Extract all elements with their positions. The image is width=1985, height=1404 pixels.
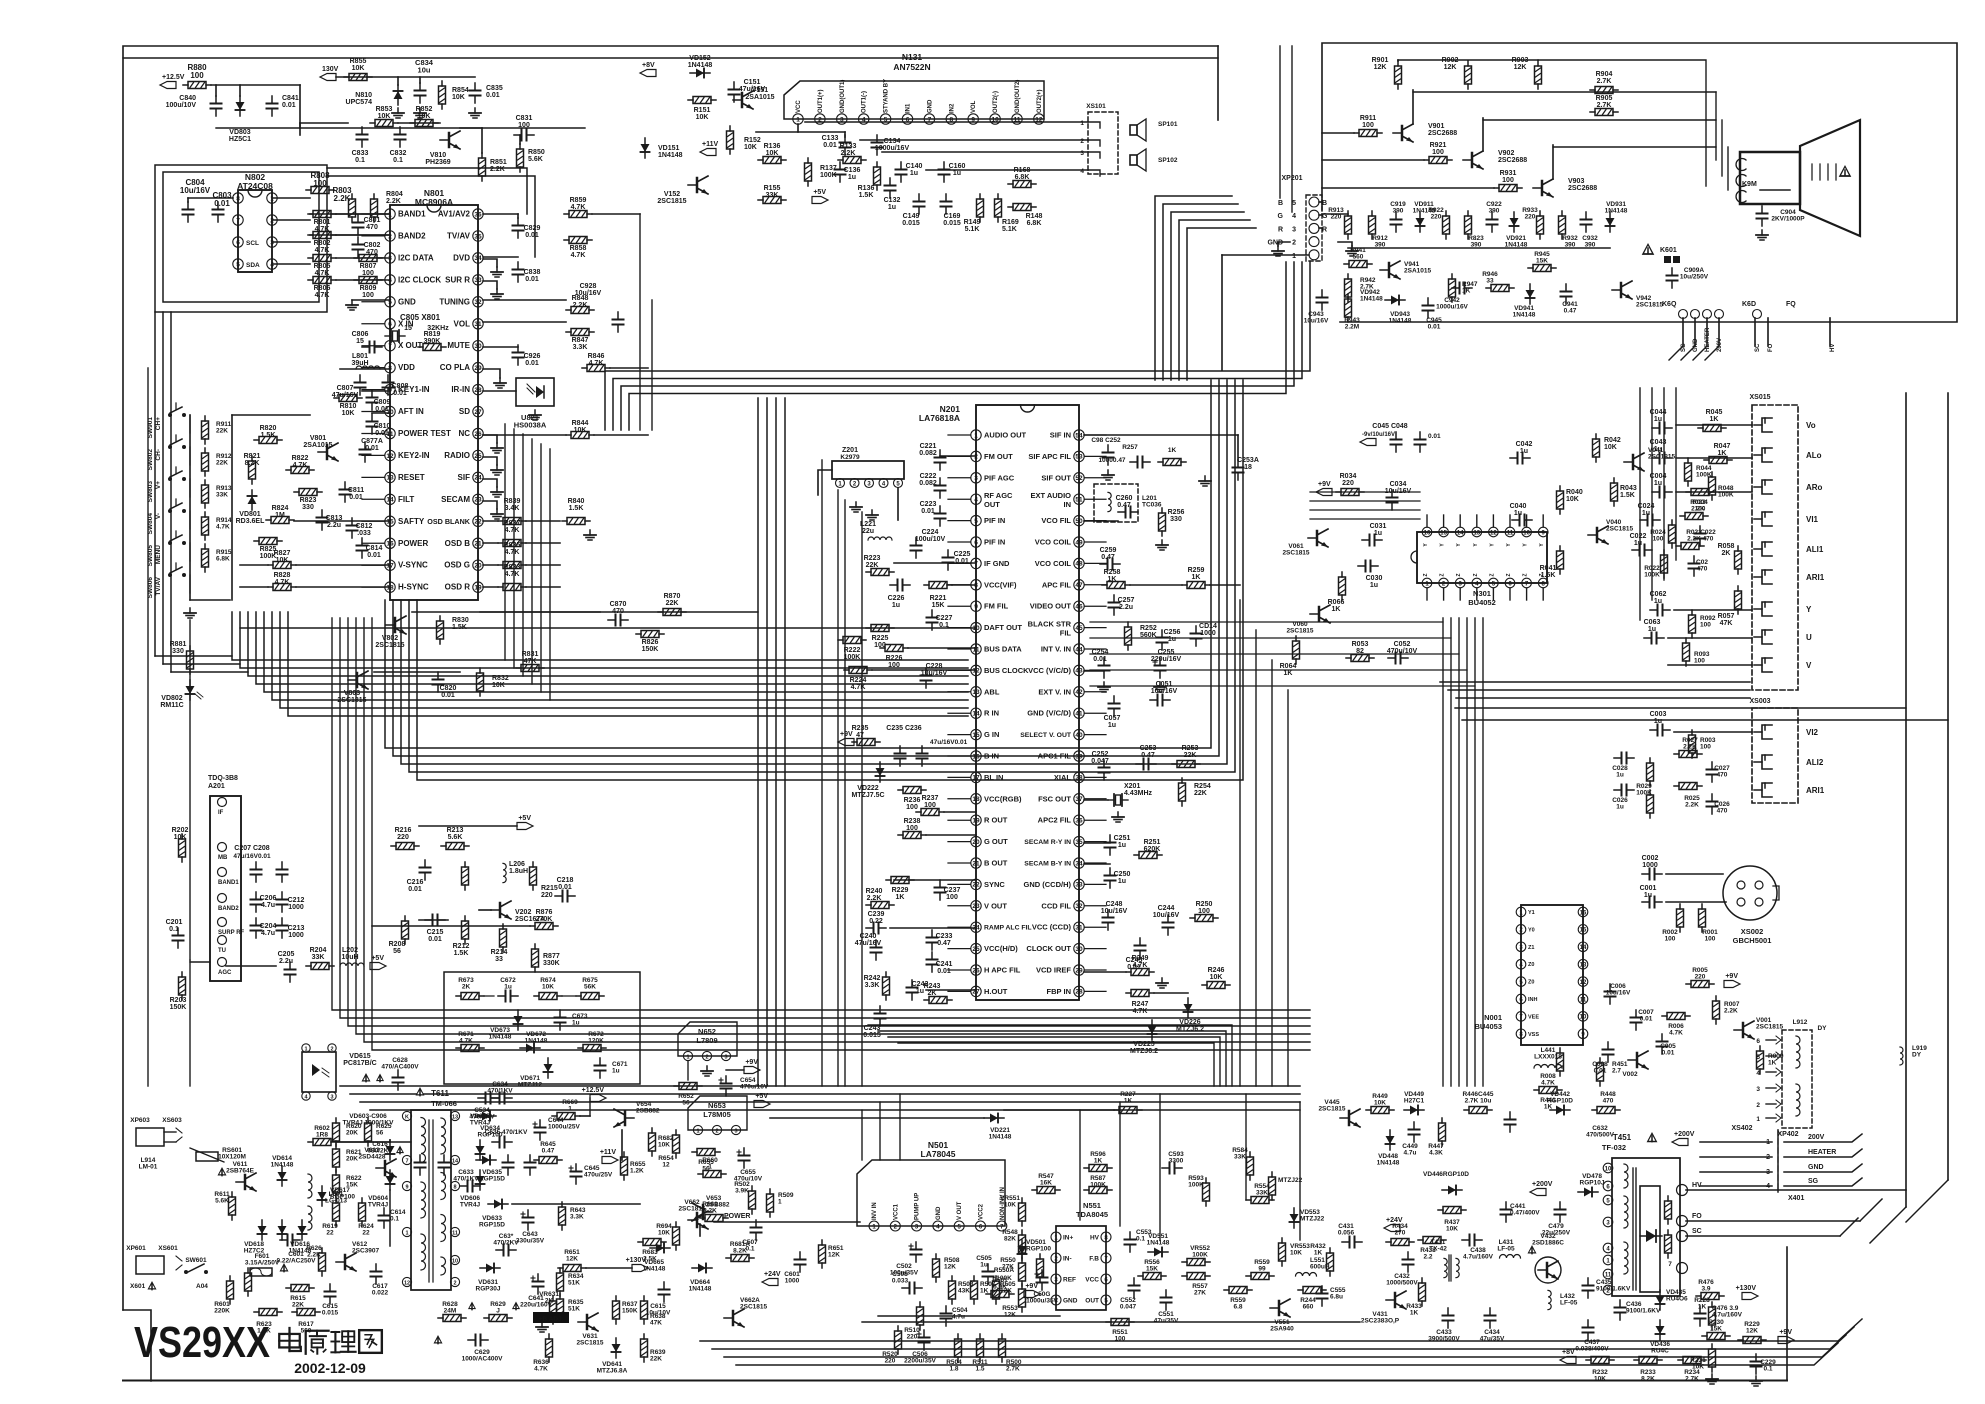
svg-text:3.9K: 3.9K bbox=[735, 1188, 749, 1195]
svg-text:0.015: 0.015 bbox=[943, 220, 961, 227]
svg-text:13: 13 bbox=[1580, 963, 1587, 969]
svg-text:V OUT: V OUT bbox=[957, 1201, 963, 1220]
svg-text:10K: 10K bbox=[342, 410, 355, 417]
pin 20 G OUT bbox=[971, 836, 981, 846]
svg-text:0.01: 0.01 bbox=[525, 360, 539, 367]
svg-text:Z0: Z0 bbox=[1528, 980, 1534, 986]
resistor R837 bbox=[498, 542, 503, 544]
svg-text:2SC1815: 2SC1815 bbox=[576, 1340, 603, 1347]
diode VD635 bbox=[476, 1159, 496, 1161]
svg-text:FBP IN: FBP IN bbox=[1047, 987, 1071, 996]
wire bbox=[1674, 731, 1752, 733]
capacitor C218 bbox=[555, 895, 563, 897]
pin 12 KEY2-IN bbox=[385, 450, 395, 460]
svg-text:R: R bbox=[1278, 226, 1283, 233]
wire switch bus bbox=[231, 415, 233, 600]
resistor R922 bbox=[1445, 211, 1447, 216]
jack VI2 bbox=[1762, 725, 1772, 739]
resistor R057 bbox=[1737, 586, 1739, 591]
inductor L551 bbox=[1296, 1273, 1317, 1277]
resistor R234 bbox=[1678, 1359, 1683, 1361]
svg-text:VI1: VI1 bbox=[1806, 515, 1819, 524]
svg-text:R136: R136 bbox=[858, 185, 875, 192]
resistor R204 bbox=[306, 965, 311, 967]
resistor R225 bbox=[866, 627, 871, 629]
svg-text:7: 7 bbox=[405, 1158, 408, 1164]
svg-text:2.2K: 2.2K bbox=[1687, 536, 1701, 543]
pin 10 bbox=[1522, 527, 1532, 537]
svg-text:IN-: IN- bbox=[1063, 1256, 1072, 1263]
pin 1 IN+ bbox=[1051, 1232, 1061, 1242]
resistor R619 bbox=[335, 1198, 337, 1203]
resistor R441 bbox=[1534, 1089, 1539, 1091]
svg-text:22K: 22K bbox=[866, 562, 879, 569]
resistor R226 bbox=[880, 647, 885, 649]
svg-text:11: 11 bbox=[1507, 530, 1514, 536]
svg-text:43: 43 bbox=[1075, 668, 1083, 675]
capacitor C840 bbox=[215, 96, 217, 104]
pin 5 Z0 bbox=[1516, 977, 1526, 987]
svg-text:1K: 1K bbox=[1544, 1104, 1553, 1111]
resistor R912 bbox=[1371, 211, 1373, 216]
capacitor C479 bbox=[1559, 1202, 1561, 1210]
resistor R550 bbox=[1021, 1258, 1023, 1263]
svg-text:100: 100 bbox=[906, 804, 918, 811]
svg-text:Z: Z bbox=[1440, 573, 1446, 576]
pin 19 R OUT bbox=[971, 815, 981, 825]
resistor R821 bbox=[251, 456, 253, 461]
wire bbox=[1322, 43, 1957, 322]
pin 4 OUT1(-) bbox=[859, 114, 869, 124]
svg-text:1K: 1K bbox=[1332, 606, 1341, 613]
wire bbox=[1084, 670, 1104, 672]
svg-text:2.2u: 2.2u bbox=[1119, 604, 1133, 611]
svg-text:10K: 10K bbox=[1004, 1202, 1016, 1209]
svg-text:15: 15 bbox=[1440, 530, 1447, 536]
warning bbox=[434, 1335, 443, 1344]
resistor R622 bbox=[335, 1170, 337, 1175]
resistor R236 bbox=[898, 789, 903, 791]
svg-text:3900/500V: 3900/500V bbox=[1428, 1336, 1460, 1343]
svg-text:0.01: 0.01 bbox=[428, 936, 442, 943]
jack U bbox=[1762, 630, 1772, 644]
capacitor C008 bbox=[1607, 1042, 1609, 1050]
svg-text:INH: INH bbox=[1528, 997, 1538, 1003]
svg-text:10: 10 bbox=[1523, 530, 1530, 536]
svg-text:MTZJ6.2: MTZJ6.2 bbox=[1130, 1048, 1158, 1055]
svg-text:0.47: 0.47 bbox=[1564, 308, 1577, 315]
svg-text:20K: 20K bbox=[346, 1130, 358, 1137]
resistor R149 bbox=[979, 194, 981, 199]
svg-text:0.01: 0.01 bbox=[525, 276, 539, 283]
wire bbox=[908, 647, 976, 649]
wire bbox=[372, 925, 530, 927]
resistor R224 bbox=[844, 669, 849, 671]
svg-text:100: 100 bbox=[1432, 149, 1444, 156]
svg-text:2SC1815: 2SC1815 bbox=[1282, 550, 1309, 557]
svg-text:470u/10V: 470u/10V bbox=[1387, 648, 1418, 655]
svg-text:HV: HV bbox=[1090, 1235, 1100, 1242]
svg-text:1000: 1000 bbox=[288, 932, 304, 939]
svg-text:R876: R876 bbox=[536, 909, 553, 916]
svg-text:IF: IF bbox=[218, 810, 224, 816]
svg-text:C248: C248 bbox=[1106, 901, 1123, 908]
pin 5 bbox=[1489, 578, 1499, 588]
pin 30 MUTE bbox=[473, 341, 483, 351]
jack Y bbox=[1762, 602, 1772, 616]
svg-text:32: 32 bbox=[474, 299, 482, 306]
svg-text:1.5K: 1.5K bbox=[859, 192, 874, 199]
svg-text:30: 30 bbox=[1075, 946, 1083, 953]
pin 49 VCO COIL bbox=[1074, 537, 1084, 547]
pin 31 VOL bbox=[473, 319, 483, 329]
svg-text:GND(OUT1): GND(OUT1) bbox=[840, 80, 846, 113]
jack VI1 bbox=[1762, 512, 1772, 526]
svg-text:RGP30J: RGP30J bbox=[476, 1286, 501, 1293]
svg-text:21: 21 bbox=[972, 860, 980, 867]
pin 1 AUDIO OUT bbox=[971, 430, 981, 440]
svg-text:33: 33 bbox=[1075, 882, 1083, 889]
svg-text:54: 54 bbox=[1075, 432, 1083, 439]
svg-text:SP101: SP101 bbox=[1158, 121, 1178, 128]
svg-text:R802: R802 bbox=[314, 240, 331, 247]
resistor R433 bbox=[1421, 1278, 1423, 1283]
svg-text:C806: C806 bbox=[352, 331, 369, 338]
capacitor C136 bbox=[839, 162, 841, 170]
svg-text:R236: R236 bbox=[904, 797, 921, 804]
svg-text:C057: C057 bbox=[1104, 715, 1121, 722]
capacitor C245 bbox=[1139, 938, 1141, 946]
bridge diode VD605 bbox=[479, 1140, 481, 1160]
svg-text:RF AGC: RF AGC bbox=[984, 491, 1013, 500]
pin 34 DVD bbox=[473, 253, 483, 263]
svg-text:SYNC: SYNC bbox=[984, 880, 1005, 889]
svg-text:1000: 1000 bbox=[1642, 862, 1658, 869]
pin 28 FBP IN bbox=[1074, 986, 1084, 996]
svg-text:1R8: 1R8 bbox=[316, 1132, 328, 1139]
svg-text:47: 47 bbox=[1075, 582, 1083, 589]
svg-text:6.8u: 6.8u bbox=[1330, 1294, 1343, 1301]
resistor R921 bbox=[1424, 159, 1429, 161]
svg-text:14: 14 bbox=[386, 497, 394, 504]
pin 5 PIF IN bbox=[971, 515, 981, 525]
svg-text:3.9: 3.9 bbox=[1701, 1286, 1710, 1293]
pin 8 HV bbox=[1101, 1232, 1111, 1242]
svg-text:R053: R053 bbox=[1352, 641, 1369, 648]
svg-text:6: 6 bbox=[974, 539, 978, 546]
svg-text:22K: 22K bbox=[292, 1302, 304, 1309]
capacitor C672 bbox=[498, 995, 506, 997]
wire bbox=[770, 1117, 984, 1119]
svg-text:470: 470 bbox=[366, 224, 378, 231]
svg-text:470/2KV: 470/2KV bbox=[493, 1240, 519, 1247]
svg-text:OSD BLANK: OSD BLANK bbox=[427, 517, 471, 526]
capacitor C820 bbox=[437, 672, 439, 680]
pin 1 bbox=[693, 1125, 702, 1134]
capacitor C838 bbox=[517, 262, 519, 270]
pin 12 bbox=[1489, 527, 1499, 537]
resistor R636 bbox=[548, 1334, 550, 1339]
wire bbox=[484, 995, 494, 997]
capacitor C902 bbox=[419, 1155, 421, 1163]
resistor R945 bbox=[1528, 267, 1533, 269]
pin BAND1 bbox=[218, 868, 227, 877]
svg-text:9: 9 bbox=[405, 1184, 408, 1190]
wire bbox=[878, 1315, 1060, 1317]
capacitor C042 bbox=[1510, 457, 1518, 459]
svg-text:12: 12 bbox=[386, 453, 394, 460]
diode VD634 bbox=[476, 1115, 496, 1117]
svg-text:LM-01: LM-01 bbox=[139, 1164, 158, 1171]
resistor R655b bbox=[623, 1152, 625, 1157]
svg-text:15: 15 bbox=[972, 732, 980, 739]
resistor R682 bbox=[651, 1128, 653, 1133]
svg-text:XS402: XS402 bbox=[1731, 1125, 1752, 1132]
svg-text:+5V: +5V bbox=[755, 1093, 768, 1100]
pin 9 KEY1-IN bbox=[385, 384, 395, 394]
svg-text:.033: .033 bbox=[357, 530, 371, 537]
resistor R044 bbox=[1687, 458, 1689, 463]
resistor R912 bbox=[204, 448, 206, 453]
wire bbox=[226, 965, 276, 967]
resistor R434 bbox=[1386, 1241, 1391, 1243]
capacitor C251 bbox=[1109, 835, 1111, 843]
svg-text:1u: 1u bbox=[1634, 540, 1642, 547]
wire bottom horizontal bus bbox=[340, 1085, 1300, 1087]
svg-text:C223: C223 bbox=[920, 501, 937, 508]
diode VD641 bbox=[615, 1338, 617, 1358]
resistor R913 bbox=[1347, 211, 1349, 216]
ground bbox=[541, 1322, 543, 1327]
resistor R660 bbox=[698, 1173, 703, 1175]
T611 pins bbox=[402, 1111, 411, 1120]
capacitor C905 bbox=[529, 1155, 531, 1163]
svg-text:26: 26 bbox=[474, 431, 482, 438]
svg-text:15: 15 bbox=[356, 338, 364, 345]
svg-text:1000u/25V: 1000u/25V bbox=[548, 1124, 580, 1131]
wire z201 to n201 bbox=[897, 488, 899, 520]
svg-text:16: 16 bbox=[1424, 530, 1431, 536]
power +130V bbox=[1742, 1293, 1758, 1300]
capacitor C809 bbox=[371, 390, 373, 398]
capacitor C062 bbox=[1650, 609, 1658, 611]
svg-text:560: 560 bbox=[301, 1328, 312, 1335]
svg-text:42: 42 bbox=[1075, 689, 1083, 696]
svg-text:1.5K: 1.5K bbox=[261, 432, 276, 439]
svg-text:EXT AUDIO: EXT AUDIO bbox=[1030, 491, 1071, 500]
svg-text:C030: C030 bbox=[1366, 575, 1383, 582]
svg-text:1u: 1u bbox=[1654, 718, 1662, 725]
svg-text:N810: N810 bbox=[355, 92, 372, 99]
svg-text:IF GND: IF GND bbox=[984, 559, 1010, 568]
resistor R047 bbox=[1704, 459, 1709, 461]
capacitor C006 bbox=[1609, 984, 1611, 992]
pin 51 EXT AUDIO IN bbox=[1074, 494, 1084, 504]
svg-text:VD615: VD615 bbox=[349, 1053, 371, 1060]
capacitor C441 bbox=[1505, 1202, 1507, 1210]
svg-text:R855: R855 bbox=[350, 58, 367, 65]
inductor L202 bbox=[340, 963, 364, 966]
svg-text:6: 6 bbox=[236, 239, 240, 246]
pin 15 bbox=[1439, 527, 1449, 537]
capacitor C225 bbox=[947, 550, 949, 558]
pin 17 V-SYNC bbox=[385, 560, 395, 570]
svg-text:RGP100: RGP100 bbox=[330, 1194, 355, 1201]
capacitor C504 bbox=[945, 1306, 947, 1314]
IC N501 LA78045 bbox=[857, 1160, 1005, 1226]
pin 10 DAFT OUT bbox=[971, 622, 981, 632]
svg-text:0.01: 0.01 bbox=[937, 968, 951, 975]
svg-text:1K: 1K bbox=[1718, 450, 1727, 457]
capacitor C244 bbox=[1167, 915, 1169, 923]
svg-text:1000/AC400V: 1000/AC400V bbox=[462, 1356, 503, 1363]
degauss coil L601 LG-013 bbox=[308, 1174, 312, 1198]
svg-text:220u/16V: 220u/16V bbox=[1151, 656, 1182, 663]
capacitor C615 bbox=[329, 1284, 331, 1292]
resistor R923 bbox=[1467, 211, 1469, 216]
svg-text:Z: Z bbox=[1456, 573, 1462, 576]
power +9V bbox=[1316, 489, 1332, 496]
pin 28 IR-IN bbox=[473, 384, 483, 394]
svg-text:1u: 1u bbox=[1514, 510, 1522, 517]
svg-text:22: 22 bbox=[972, 882, 980, 889]
svg-text:T451: T451 bbox=[1613, 1133, 1632, 1142]
svg-text:C140: C140 bbox=[906, 163, 923, 170]
svg-text:TUNING: TUNING bbox=[439, 297, 470, 306]
resistor R068 bbox=[1737, 546, 1739, 551]
svg-text:C204: C204 bbox=[260, 923, 277, 930]
svg-text:1: 1 bbox=[405, 1230, 408, 1236]
svg-text:0.1: 0.1 bbox=[1136, 1236, 1145, 1243]
svg-text:10K: 10K bbox=[492, 682, 505, 689]
svg-text:1K: 1K bbox=[1314, 1250, 1323, 1257]
transistor V431 2SC2383 bbox=[1394, 1293, 1397, 1307]
svg-text:100: 100 bbox=[1705, 936, 1716, 943]
svg-text:2.2K: 2.2K bbox=[334, 194, 351, 203]
pin 9 FM FIL bbox=[971, 601, 981, 611]
resistor R904 bbox=[1590, 89, 1595, 91]
flyback diode bbox=[1646, 1230, 1656, 1242]
transistor V445 2SC1815 bbox=[1348, 1111, 1351, 1125]
pin 42 EXT V. IN bbox=[1074, 687, 1084, 697]
svg-text:1u: 1u bbox=[1168, 636, 1176, 643]
IC N810 UPC574 bbox=[397, 85, 399, 105]
resistor R827 bbox=[268, 564, 273, 566]
svg-text:0.082: 0.082 bbox=[919, 480, 937, 487]
svg-text:44: 44 bbox=[1075, 646, 1083, 653]
wire bottom deep bus bbox=[700, 1319, 1862, 1341]
resistor R626 bbox=[321, 1248, 323, 1253]
capacitor C201 bbox=[177, 928, 179, 936]
svg-text:C251: C251 bbox=[1114, 835, 1131, 842]
svg-text:2SC1815: 2SC1815 bbox=[1648, 454, 1675, 461]
transistor V631 2SC1815 bbox=[586, 1315, 589, 1329]
resistor R238 bbox=[898, 834, 903, 836]
resistor R503 bbox=[951, 1276, 953, 1281]
svg-text:4.7u/160V: 4.7u/160V bbox=[1712, 1312, 1743, 1319]
capacitor C242 bbox=[911, 980, 913, 988]
svg-text:46: 46 bbox=[1075, 604, 1083, 611]
capacitor C207 bbox=[255, 862, 257, 870]
capacitor C222 bbox=[939, 478, 941, 486]
wire n201 pin stubs right bbox=[1085, 434, 1107, 436]
svg-text:34: 34 bbox=[474, 255, 482, 262]
pin 4 RF AGC OUT bbox=[971, 494, 981, 504]
capacitor C169 bbox=[945, 194, 947, 202]
svg-text:R881: R881 bbox=[170, 641, 187, 648]
svg-text:0.01: 0.01 bbox=[1640, 1016, 1653, 1023]
resistor R257 bbox=[1158, 461, 1163, 463]
capacitor C601 bbox=[280, 1239, 288, 1241]
svg-text:1: 1 bbox=[1756, 1116, 1760, 1123]
pin 2 bbox=[702, 1051, 711, 1060]
svg-text:4.7K: 4.7K bbox=[315, 292, 330, 299]
capacitor C555 bbox=[1321, 1286, 1323, 1294]
resistor R451 bbox=[1599, 1058, 1601, 1063]
capacitor C004 bbox=[1652, 491, 1660, 493]
svg-text:2SA1015: 2SA1015 bbox=[745, 94, 774, 101]
svg-text:C222: C222 bbox=[920, 473, 937, 480]
svg-text:+12.5V: +12.5V bbox=[162, 74, 185, 81]
resistor R807 bbox=[354, 257, 359, 259]
svg-text:OUT1(-): OUT1(-) bbox=[862, 91, 868, 113]
svg-text:OUT2(+): OUT2(+) bbox=[1037, 89, 1043, 113]
svg-text:V-SYNC: V-SYNC bbox=[398, 561, 428, 570]
svg-text:MENU: MENU bbox=[155, 545, 162, 564]
svg-text:25: 25 bbox=[972, 946, 980, 953]
svg-text:33K: 33K bbox=[766, 192, 779, 199]
svg-text:1u: 1u bbox=[1644, 892, 1652, 899]
pin 27 SD bbox=[473, 406, 483, 416]
transistor V662 2SC1815 bbox=[696, 1213, 699, 1227]
svg-text:5.6K: 5.6K bbox=[448, 834, 463, 841]
pin 10 AFT IN bbox=[385, 406, 395, 416]
svg-text:1000u/16V: 1000u/16V bbox=[875, 145, 910, 152]
svg-text:10u/250V: 10u/250V bbox=[1680, 274, 1709, 281]
svg-text:47K: 47K bbox=[524, 658, 537, 665]
svg-text:MC8906A: MC8906A bbox=[415, 197, 453, 207]
capacitor C030 bbox=[1358, 565, 1366, 567]
svg-text:10K: 10K bbox=[658, 1142, 670, 1149]
capacitor C945 bbox=[1427, 298, 1429, 306]
diode VD225 bbox=[1151, 1020, 1153, 1040]
svg-text:C840: C840 bbox=[179, 95, 196, 102]
diode VD631 bbox=[480, 1267, 500, 1269]
wire bbox=[1217, 46, 1219, 120]
resistor R243 bbox=[924, 999, 929, 1001]
svg-text:DY: DY bbox=[1817, 1025, 1827, 1032]
capacitor C236 bbox=[921, 746, 923, 754]
diode VD618 bbox=[261, 1220, 263, 1240]
svg-text:C134: C134 bbox=[884, 138, 901, 145]
pin 45 BLACK STR FIL bbox=[1074, 622, 1084, 632]
svg-text:VOL: VOL bbox=[454, 319, 471, 328]
svg-text:1u: 1u bbox=[612, 1068, 620, 1075]
svg-text:4: 4 bbox=[1292, 213, 1296, 220]
resistor R218 bbox=[464, 862, 466, 867]
svg-text:XS002: XS002 bbox=[1741, 927, 1764, 936]
svg-text:R931: R931 bbox=[1500, 170, 1517, 177]
capacitor C208 bbox=[281, 862, 283, 870]
capacitor C435 bbox=[1587, 1278, 1589, 1286]
svg-text:33K: 33K bbox=[312, 954, 325, 961]
resistor R547 bbox=[1032, 1189, 1037, 1191]
svg-text:VCC2: VCC2 bbox=[979, 1203, 985, 1220]
capacitor C034 bbox=[1391, 490, 1393, 498]
pin 5 bbox=[894, 479, 903, 488]
connector XS002 GBCH5001 bbox=[1723, 866, 1777, 920]
svg-text:100u/10V: 100u/10V bbox=[915, 536, 946, 543]
